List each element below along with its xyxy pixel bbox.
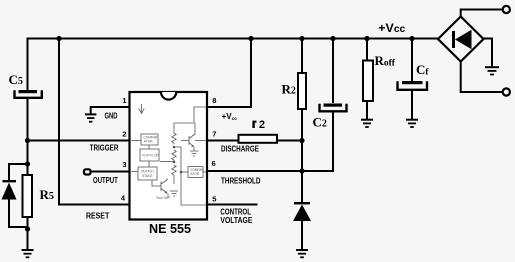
wire C2 column top bbox=[332, 39, 334, 104]
capacitor C2 bbox=[320, 104, 347, 112]
IC internal: ground of divider bbox=[170, 191, 178, 196]
wire reset riser bbox=[59, 39, 129, 205]
IC notch bbox=[161, 92, 176, 100]
wire pin8 riser bbox=[207, 39, 251, 108]
IC internal: wire output stage to pin 3 bbox=[131, 171, 138, 173]
wire Roff bottom to ground bbox=[366, 101, 368, 119]
svg-text:8: 8 bbox=[212, 96, 216, 105]
wire threshold node to diode D2 bbox=[301, 171, 303, 203]
IC internal: link box2-box3 bbox=[148, 161, 150, 167]
wire bridge bottom terminal bbox=[461, 62, 503, 93]
svg-text:VOLTAGE: VOLTAGE bbox=[220, 216, 253, 225]
IC internal: node bbox=[173, 146, 176, 149]
IC internal: wire vcc to divider bbox=[174, 107, 206, 133]
wire Cf column top bbox=[411, 39, 413, 82]
svg-text:Tsub OUT: Tsub OUT bbox=[156, 196, 170, 200]
svg-text:DISCHARGE: DISCHARGE bbox=[221, 145, 260, 154]
svg-text:ATOR: ATOR bbox=[144, 139, 153, 143]
svg-text:THRESHOLD: THRESHOLD bbox=[221, 176, 261, 185]
svg-text:+Vcc: +Vcc bbox=[378, 21, 405, 35]
IC internal: node bbox=[173, 161, 176, 164]
IC NE555 body bbox=[130, 92, 208, 220]
svg-text:1: 1 bbox=[122, 96, 126, 105]
resistor R2 bbox=[298, 73, 306, 109]
svg-text:2: 2 bbox=[259, 119, 265, 131]
svg-text:3: 3 bbox=[122, 160, 126, 169]
wire bridge top terminal bbox=[461, 10, 503, 18]
junction node trigger/C5 bbox=[25, 138, 30, 143]
svg-text:2: 2 bbox=[122, 130, 126, 139]
ground (bridge) bbox=[485, 67, 499, 74]
resistor r2 (discharge series) bbox=[239, 135, 278, 143]
junction node rail/C2 bbox=[330, 36, 335, 41]
wire bridge right to ground bbox=[484, 39, 493, 68]
IC internal: comparator box 1 bbox=[141, 134, 158, 145]
wire discharge node to threshold node bbox=[301, 141, 303, 172]
wire R2 column top bbox=[301, 39, 303, 74]
svg-text:GND: GND bbox=[105, 112, 118, 121]
ground (bottom left) bbox=[22, 250, 34, 257]
wire left column C5 to R5 bbox=[27, 99, 29, 175]
bridge rectifier diamond bbox=[438, 17, 484, 62]
IC internal: flip-flop box bbox=[140, 149, 159, 161]
capacitor C5 bbox=[15, 90, 42, 98]
ground (diode D2) bbox=[296, 250, 308, 257]
IC internal: divider resistor Ra bbox=[172, 133, 176, 144]
bridge diode bbox=[452, 30, 472, 50]
junction node rail/reset riser bbox=[56, 36, 61, 41]
ground (Roff) bbox=[361, 120, 373, 127]
svg-text:ATOR: ATOR bbox=[191, 172, 200, 176]
svg-text:STAGE: STAGE bbox=[142, 174, 153, 178]
svg-text:NE 555: NE 555 bbox=[149, 222, 191, 236]
IC internal: wire divider tap to control bbox=[174, 147, 206, 205]
IC internal: wire tap to flip-flop bbox=[160, 161, 174, 163]
wire C2 to threshold corner bbox=[332, 113, 334, 172]
wire +Vcc top rail bbox=[28, 39, 439, 91]
wire R2 bottom to discharge node bbox=[301, 109, 303, 141]
junction node rail/Roff bbox=[364, 36, 369, 41]
IC internal: transistor Q2 discharge bbox=[181, 123, 206, 151]
ground (GND pin 1) bbox=[85, 114, 96, 121]
wire diode branch bottom bbox=[9, 220, 28, 227]
wire control voltage stub bbox=[207, 204, 258, 206]
IC internal: transistor Q1 bbox=[152, 179, 168, 198]
IC internal: gnd arrow under pin 1 bbox=[139, 104, 145, 113]
wire output line bbox=[90, 171, 129, 173]
wire R5 bottom to ground bbox=[27, 217, 29, 249]
IC internal: wire trigger to comparator 1 bbox=[131, 140, 141, 142]
wire trigger line bbox=[28, 140, 130, 142]
resistor R5 bbox=[23, 175, 33, 217]
IC internal: ground of Q2 bbox=[190, 151, 198, 156]
junction node threshold bbox=[299, 168, 304, 173]
wire Cf bottom to ground bbox=[411, 91, 413, 119]
label r 2 bbox=[252, 121, 256, 128]
junction node R5 bottom bbox=[25, 226, 30, 231]
wire discharge line bbox=[207, 140, 238, 142]
ground (Cf) bbox=[406, 120, 418, 127]
junction node R5 top bbox=[25, 161, 30, 166]
resistor Roff bbox=[363, 61, 373, 102]
svg-text:TRIGGER: TRIGGER bbox=[90, 144, 119, 153]
diode D2 bbox=[293, 202, 311, 221]
svg-text:FLIP-FLOP: FLIP-FLOP bbox=[143, 154, 159, 158]
junction node rail/Cf bbox=[409, 36, 414, 41]
junction node rail/R2 bbox=[299, 36, 304, 41]
wire diode D2 to ground bbox=[301, 220, 303, 249]
junction node rail/pin8 riser bbox=[248, 36, 253, 41]
IC internal: output stage box bbox=[138, 167, 157, 180]
IC internal: divider resistor Rc bbox=[172, 165, 176, 184]
svg-text:OUTPUT: OUTPUT bbox=[93, 176, 118, 185]
svg-text:OUTPUT: OUTPUT bbox=[141, 169, 154, 173]
junction node discharge/R2 bbox=[299, 138, 304, 143]
svg-text:RESET: RESET bbox=[86, 211, 109, 220]
IC internal: divider resistor Rb bbox=[172, 150, 176, 161]
wire Roff column top bbox=[366, 39, 368, 61]
IC internal: comparator box right bbox=[188, 167, 203, 178]
output terminal (pin 3) bbox=[84, 169, 91, 174]
diode D1 bbox=[2, 180, 17, 220]
IC internal: link box1-box2 bbox=[148, 145, 150, 149]
svg-text:6: 6 bbox=[212, 159, 216, 168]
capacitor Cf bbox=[398, 81, 428, 90]
wire discharge resistor to R2 node bbox=[278, 140, 303, 142]
terminal bottom right bbox=[503, 88, 510, 95]
wire gnd pin1 bbox=[91, 107, 129, 114]
svg-text:7: 7 bbox=[212, 130, 216, 139]
wire diode branch top bbox=[9, 164, 28, 181]
svg-text:5: 5 bbox=[212, 195, 216, 204]
IC internal: node bbox=[180, 171, 183, 174]
terminal top right bbox=[503, 6, 510, 13]
IC internal: wire node to comparator bbox=[181, 171, 188, 173]
IC internal: wire comparator to pin 6 bbox=[203, 171, 206, 173]
wire threshold line bbox=[207, 113, 333, 171]
